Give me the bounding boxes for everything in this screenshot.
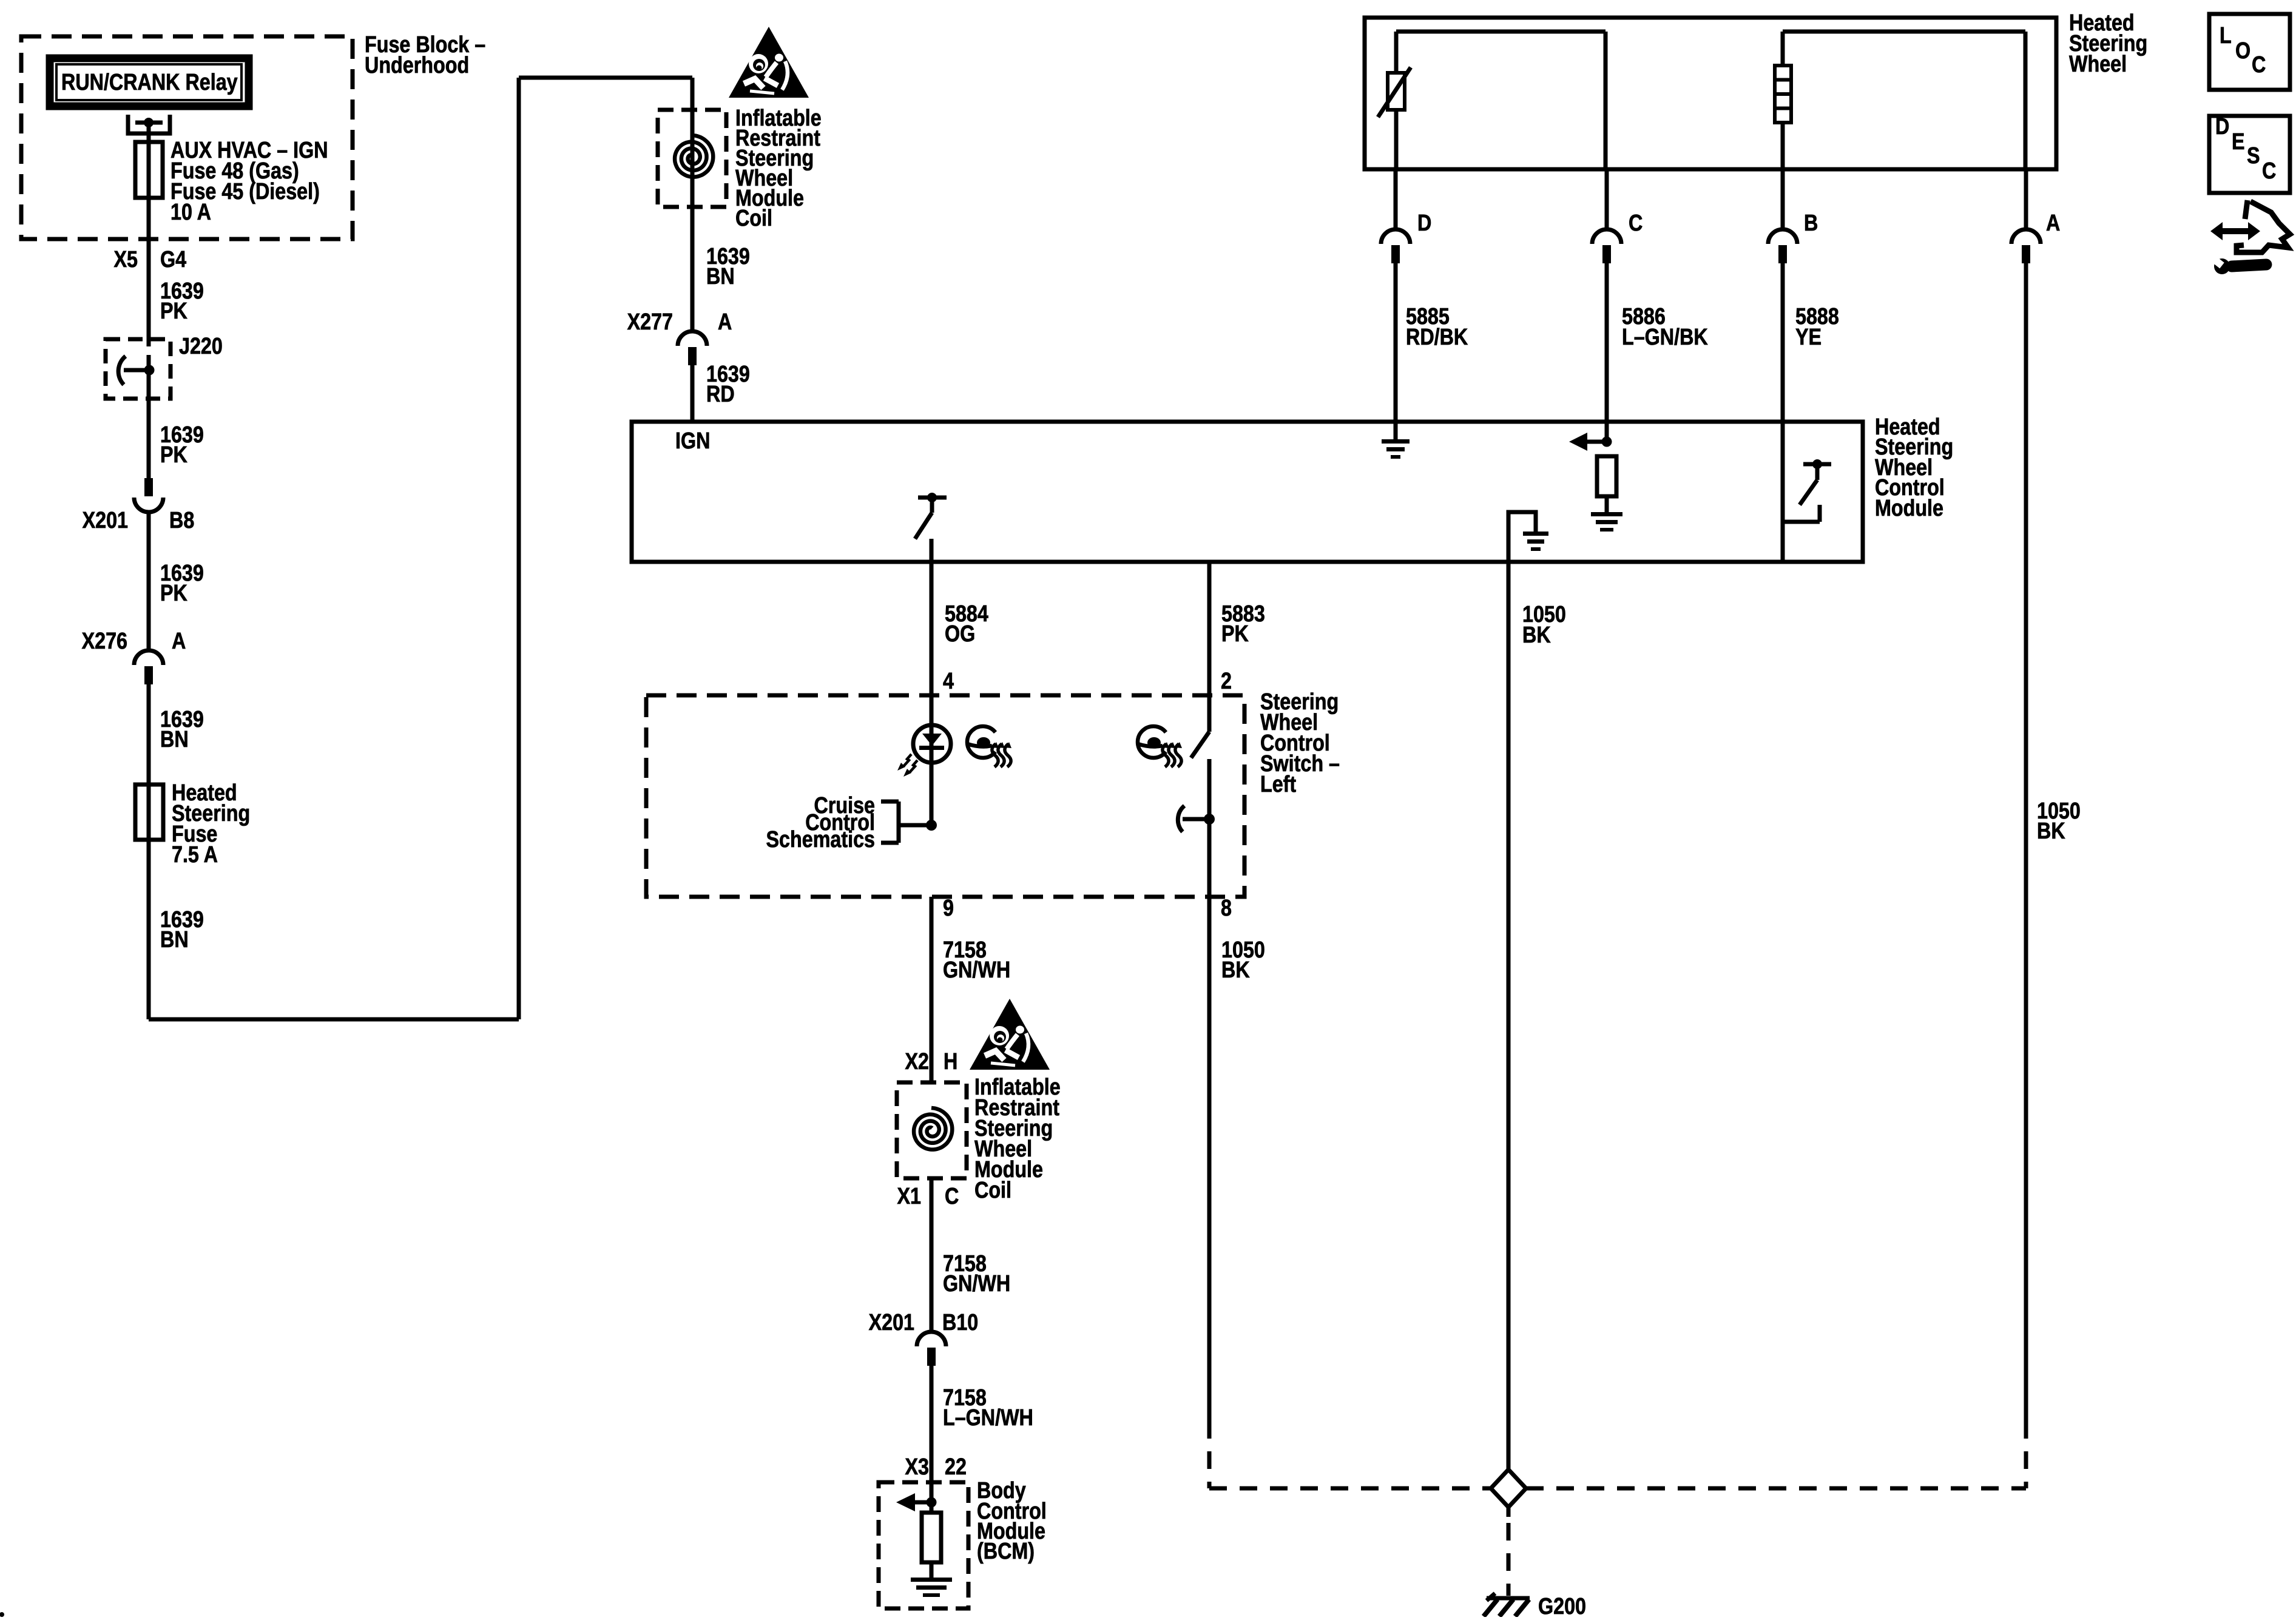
svg-text:9: 9 — [943, 896, 954, 921]
svg-text:RUN/CRANK Relay: RUN/CRANK Relay — [61, 70, 238, 95]
BCM pull resistor — [922, 1513, 941, 1562]
svg-text:X276: X276 — [82, 629, 127, 654]
body control module BCM dashed box — [879, 1482, 968, 1608]
heated steering wheel inner box 2 (heater) — [1783, 30, 2025, 34]
svg-text:10 A: 10 A — [171, 200, 211, 225]
svg-text:H: H — [944, 1049, 957, 1075]
fuse block - underhood dashed box — [21, 36, 353, 239]
svg-text:X201: X201 — [83, 508, 128, 533]
switch lever (steering wheel heat switch) — [1191, 732, 1209, 758]
relay contact symbol — [128, 115, 170, 133]
svg-text:4: 4 — [943, 669, 954, 694]
module internal switch (output driver) — [918, 496, 947, 500]
wire from relay to fuse — [147, 123, 151, 142]
svg-text:L: L — [2220, 23, 2232, 49]
svg-text:C: C — [2262, 158, 2276, 184]
module internal switch (right) — [1803, 462, 1831, 467]
svg-text:Wheel: Wheel — [2069, 52, 2127, 77]
svg-text:L–GN/WH: L–GN/WH — [943, 1405, 1033, 1431]
heated wheel icon left — [967, 726, 995, 758]
module Heated Steering Wheel Control Module box — [632, 422, 1863, 562]
svg-text:BN: BN — [160, 727, 189, 752]
wire A down right side — [2024, 263, 2028, 1421]
wire 1050 BK dashed to splice — [1207, 1421, 1212, 1488]
LOC reference box — [2209, 14, 2290, 90]
svg-text:A: A — [2046, 211, 2060, 236]
module internal chassis ground tap on 1050 BK — [1508, 512, 1536, 562]
svg-text:RD: RD — [706, 382, 735, 407]
wire 7158 below switch box — [930, 897, 934, 1082]
svg-text:Coil: Coil — [735, 206, 772, 231]
module internal ground for pin D — [1394, 422, 1398, 439]
svg-text:Module: Module — [1875, 496, 1943, 521]
svg-text:IGN: IGN — [675, 428, 710, 454]
svg-text:B: B — [1804, 211, 1818, 236]
coil dashed box 2 — [897, 1082, 967, 1178]
node J220 junction dot — [144, 365, 155, 376]
switch wiper contact clip — [1178, 806, 1184, 832]
steering wheel control switch left dashed box — [646, 695, 1244, 897]
svg-text:S: S — [2247, 143, 2260, 169]
wire below splice — [1507, 1507, 1511, 1517]
node switch contact dot — [1204, 814, 1215, 825]
svg-text:G200: G200 — [1538, 1594, 1586, 1617]
svg-text:BK: BK — [1221, 957, 1250, 983]
wire riser up — [517, 78, 521, 1019]
svg-text:X201: X201 — [869, 1310, 914, 1335]
wire 1050 BK from module chassis ground down — [1507, 562, 1511, 1470]
splice pack J220 dashed box — [106, 339, 171, 399]
cruise control schematics bracket — [897, 802, 901, 843]
svg-text:X5: X5 — [114, 247, 138, 272]
svg-text:2: 2 — [1221, 669, 1232, 694]
wire switch to module bottom — [930, 539, 934, 562]
svg-text:X1: X1 — [897, 1184, 921, 1209]
relay K RUN/CRANK Relay box — [50, 58, 249, 106]
thermistor temperature sensor — [1388, 73, 1405, 110]
coil spiral symbol — [675, 135, 713, 177]
svg-text:OG: OG — [945, 621, 975, 647]
svg-text:(BCM): (BCM) — [977, 1539, 1035, 1564]
svg-text:Left: Left — [1260, 772, 1296, 797]
svg-text:RD/BK: RD/BK — [1406, 325, 1468, 350]
svg-text:D: D — [2215, 114, 2229, 140]
svg-text:Coil: Coil — [974, 1178, 1011, 1203]
svg-text:PK: PK — [160, 299, 187, 324]
heated steering wheel outer box — [1365, 18, 2056, 169]
module internal sense resistor + arrow for pin C — [1605, 422, 1609, 447]
svg-text:A: A — [172, 629, 186, 654]
svg-text:O: O — [2235, 38, 2250, 64]
wire X276 down to heated steering fuse — [147, 684, 151, 1019]
warning icon inflatable restraint (top) — [729, 27, 809, 98]
svg-text:YE: YE — [1795, 325, 1822, 350]
module internal partition (right cell) — [1781, 422, 1785, 562]
svg-text:BK: BK — [1522, 623, 1551, 648]
DESC reference box — [2209, 116, 2290, 193]
svg-text:8: 8 — [1221, 896, 1232, 921]
wire D to module — [1394, 263, 1398, 422]
svg-text:BN: BN — [160, 927, 189, 953]
wire A dashed to splice — [2024, 1421, 2028, 1488]
svg-text:C: C — [945, 1184, 959, 1209]
wire C to module — [1605, 263, 1609, 422]
warning icon inflatable restraint (middle) — [970, 999, 1050, 1070]
heated wheel icon right — [1138, 726, 1166, 758]
svg-text:Underhood: Underhood — [365, 53, 469, 78]
svg-text:Schematics: Schematics — [766, 827, 875, 852]
svg-text:7.5 A: 7.5 A — [172, 842, 218, 868]
svg-text:GN/WH: GN/WH — [943, 1271, 1010, 1297]
repair icon arrows and wrench — [2221, 228, 2251, 234]
svg-text:X277: X277 — [627, 309, 673, 335]
svg-text:X3: X3 — [905, 1454, 929, 1480]
svg-text:X2: X2 — [905, 1049, 929, 1075]
wire top across to coil — [519, 76, 692, 80]
svg-text:22: 22 — [945, 1454, 967, 1480]
svg-text:GN/WH: GN/WH — [943, 957, 1010, 983]
fuse F48/F45 AUX HVAC - IGN — [135, 142, 163, 198]
wire B from heating element — [1781, 169, 1785, 229]
wire below switch — [1207, 759, 1212, 897]
svg-text:BK: BK — [2037, 818, 2065, 844]
svg-text:B8: B8 — [169, 508, 194, 533]
svg-text:J220: J220 — [179, 334, 223, 359]
J220 clip symbol — [118, 356, 126, 385]
svg-text:B10: B10 — [942, 1310, 978, 1335]
node cruise control tap — [926, 820, 937, 831]
svg-text:G4: G4 — [160, 247, 186, 272]
wire 5883 from module — [1207, 562, 1212, 732]
svg-text:D: D — [1417, 211, 1431, 236]
LED indicator in switch — [913, 725, 951, 763]
wire to BCM — [930, 1366, 934, 1513]
ground G200 symbol — [1487, 1596, 1530, 1601]
wire into coil — [690, 78, 695, 332]
wire 5884 from module — [930, 562, 934, 825]
wire J220 down to X201 — [147, 355, 151, 478]
heated steering wheel inner box 1 (sensor) — [1396, 30, 1606, 34]
coil spiral symbol 2 — [914, 1108, 952, 1150]
svg-text:C: C — [2252, 52, 2266, 78]
connector X201 pin B8 — [144, 478, 153, 496]
svg-text:E: E — [2232, 129, 2245, 155]
wire corner to riser — [149, 1018, 519, 1022]
wire A from heated steering wheel — [2024, 169, 2028, 229]
LED light arrows — [903, 754, 911, 766]
svg-text:L–GN/BK: L–GN/BK — [1622, 325, 1708, 350]
svg-text:A: A — [718, 309, 732, 335]
wire X277 to module — [690, 365, 695, 422]
coil dashed box (inflatable restraint steering wheel module coil) — [658, 110, 726, 207]
wire through fuse down to J220 — [147, 142, 151, 346]
wire X1 down — [930, 1178, 934, 1332]
BCM internal ground — [930, 1562, 934, 1578]
wire 1050 below switch box — [1207, 897, 1212, 1421]
fuse Heated Steering Fuse 7.5A — [135, 785, 163, 840]
svg-text:BN: BN — [706, 264, 735, 289]
svg-text:C: C — [1629, 211, 1643, 236]
wire D from heated steering wheel — [1394, 169, 1398, 229]
page artifact dot — [0, 1612, 4, 1617]
heating element — [1775, 66, 1791, 123]
wire C from heated steering wheel — [1605, 169, 1609, 229]
BCM input arrow — [927, 1497, 937, 1508]
svg-text:PK: PK — [1221, 621, 1249, 647]
wire B to module — [1781, 263, 1785, 422]
svg-text:PK: PK — [160, 442, 187, 468]
splice diamond — [1491, 1470, 1526, 1507]
svg-text:PK: PK — [160, 581, 187, 606]
wire X201 to X276 — [147, 512, 151, 650]
